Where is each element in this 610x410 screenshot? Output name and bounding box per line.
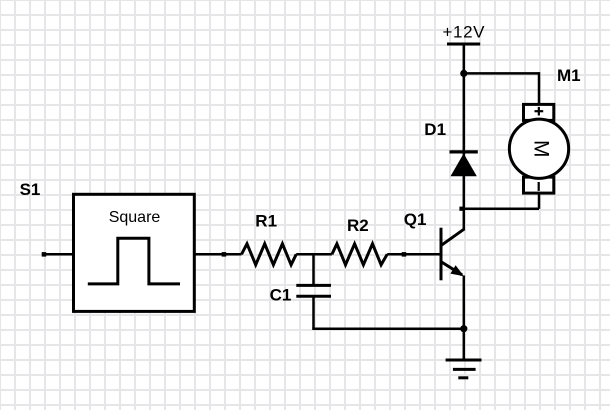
svg-text:Square: Square — [109, 209, 161, 226]
svg-text:S1: S1 — [20, 180, 41, 199]
svg-text:R2: R2 — [347, 216, 369, 235]
svg-text:M: M — [530, 140, 553, 158]
svg-text:R1: R1 — [255, 212, 277, 231]
svg-text:C1: C1 — [270, 285, 292, 304]
svg-text:D1: D1 — [424, 120, 446, 139]
svg-text:Q1: Q1 — [404, 210, 427, 229]
svg-text:+12V: +12V — [443, 23, 486, 42]
svg-text:M1: M1 — [557, 66, 581, 85]
